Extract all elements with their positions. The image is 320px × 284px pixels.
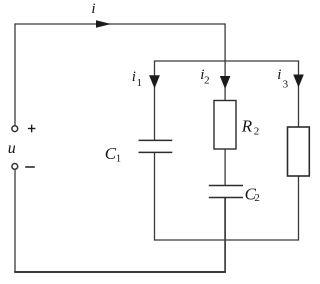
wire top from source to center branch bbox=[15, 23, 225, 25]
svg-text:i: i bbox=[91, 1, 95, 17]
capacitor C1 plates bbox=[139, 140, 173, 152]
arrow current i1 (branch1, pointing down) bbox=[149, 75, 160, 88]
arrow current i2 (branch2, pointing down) bbox=[220, 76, 231, 89]
terminal + (upper source terminal circle) bbox=[12, 126, 18, 132]
wire branch2 upper bbox=[224, 60, 226, 101]
wire branch2 middle bbox=[224, 149, 226, 186]
resistor R2 body bbox=[214, 101, 236, 150]
wire bottom bus bbox=[155, 239, 299, 241]
svg-text:1: 1 bbox=[116, 152, 122, 164]
svg-text:2: 2 bbox=[254, 192, 260, 204]
wire branch1 lower bbox=[154, 153, 156, 241]
wire branch3 upper bbox=[298, 60, 300, 127]
wire left lower (source bottom lead) bbox=[14, 169, 16, 272]
wire bottom return bbox=[14, 271, 226, 273]
svg-text:R: R bbox=[241, 116, 253, 135]
wire left upper (source top lead) bbox=[14, 23, 16, 125]
svg-text:u: u bbox=[8, 140, 16, 157]
svg-text:i: i bbox=[132, 69, 136, 85]
svg-text:i: i bbox=[277, 67, 281, 83]
terminal - (lower source terminal circle) bbox=[12, 164, 18, 170]
capacitor C2 plates bbox=[209, 186, 243, 198]
svg-text:2: 2 bbox=[254, 126, 259, 138]
svg-text:1: 1 bbox=[137, 77, 143, 89]
arrow current i (top wire, pointing right) bbox=[96, 20, 111, 27]
wire center drop from top wire to top bus bbox=[224, 23, 226, 61]
label - (source polarity) bbox=[25, 166, 35, 168]
svg-text:3: 3 bbox=[283, 79, 289, 91]
resistor body branch3 (unlabeled) bbox=[288, 127, 310, 176]
svg-text:2: 2 bbox=[204, 75, 210, 87]
label + (source polarity) bbox=[28, 125, 36, 133]
wire branch2 lower bbox=[224, 198, 226, 273]
wire branch3 lower bbox=[298, 176, 300, 241]
arrow current i3 (branch3, pointing down) bbox=[293, 75, 304, 88]
wire branch1 upper bbox=[154, 60, 156, 140]
wire top bus bbox=[155, 60, 299, 62]
